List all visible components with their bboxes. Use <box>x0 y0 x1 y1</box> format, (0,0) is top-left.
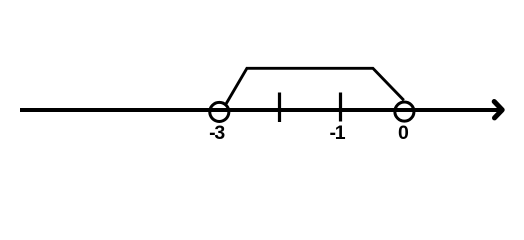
svg-text:0: 0 <box>398 122 409 144</box>
svg-text:-3: -3 <box>209 122 225 144</box>
tick mark at -1 <box>339 93 342 122</box>
open circle at -3 <box>210 102 229 121</box>
open circle at 0 <box>395 102 414 121</box>
interval hump from -3 to 0 <box>226 68 404 104</box>
tick mark at -2 <box>278 93 281 123</box>
svg-text:-1: -1 <box>330 122 346 144</box>
number line axis <box>20 108 499 112</box>
arrowhead <box>494 102 502 118</box>
